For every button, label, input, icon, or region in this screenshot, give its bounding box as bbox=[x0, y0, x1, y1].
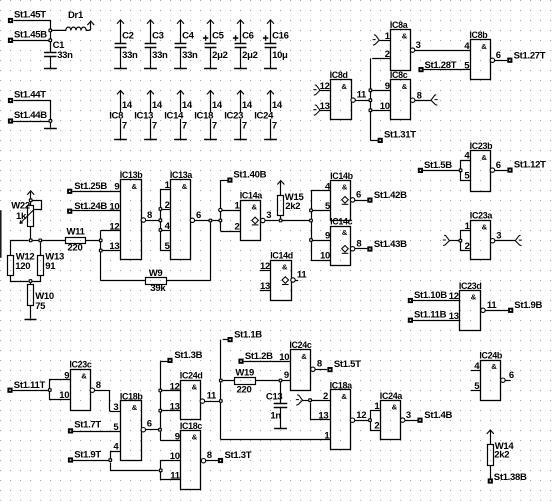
node St1.45B bbox=[8, 29, 47, 43]
svg-text:7: 7 bbox=[182, 120, 187, 131]
ground bbox=[114, 139, 127, 141]
svg-text:3: 3 bbox=[113, 402, 118, 413]
wire bbox=[405, 420, 418, 422]
wire bbox=[424, 69, 470, 71]
pin 6 IC8b bbox=[490, 50, 501, 63]
svg-text:13: 13 bbox=[109, 241, 119, 252]
wire bbox=[146, 220, 159, 222]
svg-text:&: & bbox=[301, 352, 307, 361]
svg-text:IC14b: IC14b bbox=[330, 171, 354, 181]
svg-text:11: 11 bbox=[297, 270, 307, 281]
svg-text:11: 11 bbox=[170, 471, 180, 482]
svg-text:IC23: IC23 bbox=[224, 111, 243, 122]
svg-text:12: 12 bbox=[356, 410, 366, 421]
wire bbox=[413, 300, 460, 302]
svg-text:8: 8 bbox=[356, 238, 361, 249]
junction bbox=[158, 409, 162, 413]
svg-text:IC18a: IC18a bbox=[330, 380, 353, 390]
gate IC23d bbox=[459, 281, 482, 331]
svg-text:IC14c: IC14c bbox=[330, 216, 353, 226]
svg-text:W11: W11 bbox=[67, 227, 86, 238]
node St1.5T bbox=[327, 359, 361, 372]
junction bbox=[99, 239, 103, 243]
svg-text:2: 2 bbox=[465, 241, 470, 252]
wire bbox=[355, 100, 368, 102]
svg-text:2μ2: 2μ2 bbox=[212, 50, 227, 61]
junction bbox=[48, 29, 52, 33]
junction bbox=[159, 207, 163, 211]
pin 2 IC13a bbox=[165, 200, 170, 211]
junction bbox=[159, 218, 163, 222]
svg-text:1k: 1k bbox=[16, 211, 27, 222]
svg-text:&: & bbox=[81, 371, 87, 380]
pin 3 IC14a bbox=[261, 210, 272, 223]
svg-text:2k2: 2k2 bbox=[494, 450, 509, 461]
svg-text:C5: C5 bbox=[212, 30, 225, 41]
svg-text:6: 6 bbox=[196, 210, 201, 221]
wire bbox=[283, 220, 312, 222]
junction bbox=[279, 379, 283, 383]
svg-text:St1.9T: St1.9T bbox=[74, 450, 101, 461]
pin 11 IC18c bbox=[170, 471, 180, 482]
junction bbox=[309, 238, 313, 242]
wire bbox=[485, 310, 508, 312]
node St1.10B bbox=[408, 290, 447, 303]
svg-text:IC24b: IC24b bbox=[479, 350, 503, 360]
pin 8 IC23c bbox=[90, 380, 101, 393]
svg-text:2μ2: 2μ2 bbox=[242, 50, 257, 61]
wire bbox=[73, 431, 120, 433]
svg-text:St1.27T: St1.27T bbox=[514, 50, 546, 61]
svg-text:120: 120 bbox=[15, 261, 30, 272]
resistor W11 bbox=[66, 227, 86, 254]
svg-text:9: 9 bbox=[114, 182, 119, 193]
wire bbox=[13, 40, 48, 42]
wire bbox=[295, 280, 298, 282]
gate IC13b bbox=[120, 170, 144, 260]
svg-text:2: 2 bbox=[385, 49, 390, 60]
svg-text:10μ: 10μ bbox=[272, 50, 288, 61]
svg-text:W22: W22 bbox=[11, 200, 30, 211]
svg-text:IC13b: IC13b bbox=[120, 170, 144, 180]
input bar IC23c bbox=[50, 380, 71, 400]
wire bbox=[42, 240, 65, 242]
wire bbox=[220, 180, 222, 231]
open collector symbol bbox=[252, 217, 259, 225]
svg-text:9: 9 bbox=[284, 370, 289, 381]
svg-text:12: 12 bbox=[170, 381, 180, 392]
svg-text:12: 12 bbox=[449, 291, 459, 302]
svg-text:&: & bbox=[132, 403, 138, 412]
pin 6 IC23b bbox=[490, 160, 501, 173]
input bar IC18c pins 10/11 bbox=[161, 461, 181, 480]
IC IC13 power pins 14/7 bbox=[134, 91, 163, 140]
node St1.11B bbox=[408, 310, 447, 323]
svg-text:Dr1: Dr1 bbox=[68, 10, 84, 21]
wire bbox=[14, 101, 51, 120]
wire bbox=[86, 240, 99, 242]
svg-text:C2: C2 bbox=[122, 30, 134, 41]
svg-text:9: 9 bbox=[64, 370, 69, 381]
pin 11 IC8d bbox=[351, 90, 367, 103]
svg-text:C16: C16 bbox=[272, 30, 289, 41]
node St1.2B bbox=[238, 351, 273, 364]
gate IC8d bbox=[330, 70, 352, 119]
wire bbox=[195, 220, 209, 222]
svg-text:St1.10B: St1.10B bbox=[414, 290, 447, 301]
capacitor C3 bbox=[145, 20, 168, 69]
junction bbox=[219, 219, 223, 223]
svg-text:&: & bbox=[402, 32, 408, 41]
svg-text:&: & bbox=[482, 223, 488, 232]
gate IC24d bbox=[180, 371, 203, 420]
IC IC23 power pins 14/7 bbox=[224, 91, 253, 140]
svg-text:&: & bbox=[132, 182, 138, 191]
junction bbox=[369, 98, 373, 102]
svg-text:St1.45B: St1.45B bbox=[14, 29, 47, 40]
pin 4 IC18b bbox=[111, 441, 121, 458]
svg-text:13: 13 bbox=[320, 101, 330, 112]
svg-text:10: 10 bbox=[380, 101, 390, 112]
pin 8 IC18c bbox=[201, 450, 211, 463]
pin 2 IC8a bbox=[372, 49, 390, 60]
svg-text:6: 6 bbox=[509, 370, 514, 381]
capacitor C5 bbox=[203, 20, 228, 69]
pin 3 IC8a bbox=[410, 40, 420, 53]
pin 4 IC14b bbox=[325, 181, 331, 192]
open output arrow bbox=[515, 235, 522, 245]
pin 4 IC24b bbox=[471, 361, 480, 372]
node St1.11T bbox=[7, 380, 45, 393]
pin 13 IC13b bbox=[109, 241, 119, 252]
svg-text:IC13a: IC13a bbox=[170, 170, 193, 180]
svg-text:St1.31T: St1.31T bbox=[384, 130, 416, 141]
wire bbox=[495, 170, 508, 172]
node St1.7T bbox=[68, 420, 102, 434]
svg-text:IC13: IC13 bbox=[134, 111, 153, 122]
pin 13 IC8d bbox=[313, 101, 330, 115]
svg-text:&: & bbox=[192, 382, 198, 391]
ground bbox=[144, 139, 157, 141]
wire bbox=[220, 340, 222, 440]
pin 6 IC24b bbox=[501, 370, 514, 382]
wire bbox=[13, 121, 49, 123]
gate IC14b bbox=[330, 171, 354, 221]
wire bbox=[33, 240, 39, 242]
resistor W9 bbox=[101, 268, 167, 294]
pin 5 IC23b bbox=[464, 171, 470, 182]
pin 10 IC18c bbox=[170, 451, 180, 462]
pin 3 IC24a bbox=[401, 410, 411, 422]
svg-text:St1.25B: St1.25B bbox=[74, 181, 107, 192]
pin 11 IC23d bbox=[481, 300, 498, 313]
pin 10 IC8c bbox=[372, 101, 390, 112]
junction bbox=[279, 219, 283, 223]
resistor W14 bbox=[487, 430, 515, 478]
svg-text:St1.3T: St1.3T bbox=[225, 450, 252, 461]
svg-text:St1.11B: St1.11B bbox=[414, 310, 447, 321]
svg-text:6: 6 bbox=[496, 160, 501, 171]
svg-text:W19: W19 bbox=[235, 368, 254, 379]
svg-text:39k: 39k bbox=[150, 283, 166, 294]
junction bbox=[108, 458, 112, 462]
open input arrow bbox=[443, 235, 459, 245]
svg-text:St1.9B: St1.9B bbox=[514, 300, 542, 311]
svg-text:St1.45T: St1.45T bbox=[14, 10, 46, 21]
svg-text:3: 3 bbox=[406, 410, 411, 421]
junction bbox=[309, 219, 313, 223]
svg-text:3: 3 bbox=[416, 40, 421, 51]
pin 6 IC18b bbox=[141, 419, 152, 432]
input bar IC23b bbox=[461, 161, 471, 181]
svg-text:IC8c: IC8c bbox=[390, 70, 408, 80]
svg-text:220: 220 bbox=[237, 384, 252, 395]
ground bbox=[114, 68, 127, 70]
junction bbox=[459, 168, 463, 172]
svg-text:1n: 1n bbox=[270, 410, 281, 421]
svg-text:13: 13 bbox=[170, 401, 180, 412]
pin 8 IC13b bbox=[141, 210, 152, 222]
svg-text:IC18b: IC18b bbox=[120, 391, 144, 401]
svg-text:&: & bbox=[471, 293, 477, 302]
svg-text:8: 8 bbox=[317, 359, 322, 370]
pin 9 IC8c bbox=[372, 81, 390, 92]
wire bbox=[100, 231, 102, 281]
wire bbox=[244, 361, 290, 363]
wire bbox=[495, 60, 508, 62]
pin 12 IC18a bbox=[350, 410, 366, 423]
svg-text:IC18c: IC18c bbox=[180, 421, 203, 431]
capacitor C6 bbox=[233, 20, 258, 69]
capacitor C13 bbox=[266, 382, 287, 428]
gate IC23a bbox=[470, 211, 493, 260]
ground bbox=[204, 68, 217, 70]
IC IC24 power pins 14/7 bbox=[254, 91, 283, 140]
pin 4 IC13a bbox=[165, 221, 171, 232]
wire bbox=[206, 460, 218, 462]
svg-text:IC24c: IC24c bbox=[289, 340, 312, 350]
pin 1 IC18a bbox=[221, 431, 331, 442]
ground bbox=[44, 128, 57, 130]
svg-text:14: 14 bbox=[122, 100, 133, 111]
svg-text:75: 75 bbox=[35, 301, 46, 312]
svg-text:&: & bbox=[392, 403, 398, 412]
resistor W10 bbox=[28, 283, 54, 319]
gate IC24a bbox=[380, 391, 403, 440]
resistor W19 bbox=[223, 368, 279, 396]
svg-text:14: 14 bbox=[242, 100, 253, 111]
junction bbox=[38, 239, 42, 243]
pin 2 IC24a bbox=[374, 421, 379, 432]
input bar IC18a pin 13 bbox=[311, 403, 331, 422]
svg-text:St1.5T: St1.5T bbox=[334, 359, 361, 370]
wire bbox=[50, 123, 52, 128]
pin 11 IC14d bbox=[291, 270, 308, 283]
svg-text:IC24a: IC24a bbox=[380, 391, 403, 401]
pin 2 IC18a bbox=[312, 391, 330, 402]
pin 8 IC14c bbox=[350, 238, 361, 251]
node St1.44T bbox=[8, 90, 46, 104]
ground bbox=[25, 319, 37, 321]
gate IC14d bbox=[270, 251, 293, 301]
svg-text:33n: 33n bbox=[182, 50, 198, 61]
pin 12 IC13b bbox=[109, 221, 119, 232]
pin 5 IC13a bbox=[165, 241, 171, 252]
wire bbox=[72, 210, 120, 212]
svg-text:6: 6 bbox=[496, 50, 501, 61]
svg-text:14: 14 bbox=[152, 100, 163, 111]
open input arrow bbox=[296, 395, 308, 405]
node St1.38B bbox=[488, 472, 527, 483]
pin 9 IC13b bbox=[114, 182, 119, 193]
wire bbox=[146, 429, 159, 431]
pin 5 IC18b bbox=[113, 422, 119, 433]
gate IC18a bbox=[330, 380, 353, 449]
pin 10 IC13b bbox=[109, 202, 119, 213]
svg-text:IC14a: IC14a bbox=[240, 191, 263, 201]
svg-text:2: 2 bbox=[165, 200, 170, 211]
node St1.1B bbox=[223, 329, 263, 342]
svg-text:&: & bbox=[282, 262, 288, 271]
ground bbox=[44, 68, 57, 70]
node St1.28T bbox=[418, 60, 456, 72]
pin 12 IC24d bbox=[162, 381, 180, 392]
svg-text:&: & bbox=[342, 183, 348, 192]
pin 10 IC23c bbox=[59, 390, 69, 401]
pin 12 IC14d bbox=[260, 261, 271, 272]
wire bbox=[205, 401, 219, 403]
pin 1 IC14a bbox=[222, 201, 240, 212]
pin 13 IC14d bbox=[260, 281, 271, 292]
svg-text:11: 11 bbox=[487, 300, 497, 311]
svg-text:W9: W9 bbox=[149, 268, 163, 279]
pin 2 IC23a bbox=[465, 241, 470, 252]
capacitor C4 bbox=[175, 20, 198, 69]
junction bbox=[308, 398, 312, 402]
junction bbox=[29, 239, 33, 243]
pin 5 IC8b bbox=[464, 60, 470, 71]
ground bbox=[234, 139, 247, 141]
svg-text:St1.7T: St1.7T bbox=[74, 420, 101, 431]
wire bbox=[13, 390, 48, 392]
junction bbox=[29, 198, 33, 202]
svg-text:13: 13 bbox=[449, 311, 459, 322]
junction bbox=[159, 228, 163, 232]
pin 9 IC23c bbox=[64, 370, 69, 381]
svg-text:St1.42B: St1.42B bbox=[374, 190, 407, 201]
junction bbox=[219, 399, 223, 403]
svg-text:St1.4B: St1.4B bbox=[424, 410, 452, 421]
svg-text:St1.43B: St1.43B bbox=[374, 239, 407, 250]
svg-text:IC8d: IC8d bbox=[330, 70, 348, 80]
svg-text:220: 220 bbox=[68, 243, 83, 254]
pin 12 IC8d bbox=[313, 81, 330, 95]
gate IC14a bbox=[240, 191, 263, 241]
wire bbox=[415, 50, 470, 52]
svg-text:IC24: IC24 bbox=[254, 111, 274, 122]
resistor W15 bbox=[277, 181, 304, 219]
gate IC18b bbox=[120, 391, 144, 460]
svg-text:10: 10 bbox=[320, 251, 330, 262]
ground bbox=[144, 68, 157, 70]
node St1.5B bbox=[418, 160, 452, 173]
resistor W13 bbox=[38, 242, 64, 275]
wire bbox=[423, 170, 459, 172]
wire bbox=[11, 241, 29, 256]
svg-text:&: & bbox=[182, 182, 188, 191]
node St1.12T bbox=[507, 160, 546, 173]
svg-text:&: & bbox=[341, 392, 347, 401]
pin 9 IC18c bbox=[160, 431, 180, 442]
svg-text:IC14: IC14 bbox=[164, 111, 184, 122]
svg-text:2k2: 2k2 bbox=[285, 201, 300, 212]
input bar IC23a bbox=[461, 231, 471, 251]
junction bbox=[219, 379, 223, 383]
svg-text:12: 12 bbox=[260, 261, 270, 272]
junction bbox=[459, 239, 463, 243]
svg-text:9: 9 bbox=[175, 431, 180, 442]
svg-text:10: 10 bbox=[170, 451, 180, 462]
svg-text:10: 10 bbox=[279, 352, 289, 363]
wire bbox=[30, 226, 32, 239]
svg-text:St1.2B: St1.2B bbox=[245, 351, 273, 362]
junction bbox=[49, 119, 53, 123]
svg-text:11: 11 bbox=[357, 90, 367, 101]
IC IC8 power pins 14/7 bbox=[109, 91, 133, 140]
pin 11 IC24d bbox=[200, 391, 217, 404]
capacitor C16 bbox=[263, 20, 289, 69]
input bar IC24a bbox=[371, 411, 381, 431]
pin 5 IC14b bbox=[325, 201, 331, 212]
svg-text:33n: 33n bbox=[152, 50, 168, 61]
pin 5 IC24b bbox=[471, 381, 480, 392]
ground bbox=[174, 139, 187, 141]
wire bbox=[370, 58, 377, 140]
svg-text:14: 14 bbox=[272, 100, 283, 111]
svg-text:8: 8 bbox=[147, 210, 152, 221]
svg-text:33n: 33n bbox=[122, 50, 138, 61]
svg-text:14: 14 bbox=[212, 100, 223, 111]
pin 3 IC18b bbox=[113, 402, 118, 413]
gate IC8a bbox=[390, 20, 411, 71]
junction bbox=[48, 38, 52, 42]
wire bbox=[495, 240, 516, 242]
wire bbox=[11, 276, 29, 282]
pin 1 IC8a bbox=[373, 31, 391, 45]
svg-text:&: & bbox=[491, 362, 497, 371]
capacitor C2 bbox=[115, 20, 138, 69]
gate IC18c bbox=[180, 421, 203, 490]
capacitor C1 bbox=[44, 40, 73, 68]
ground bbox=[274, 428, 287, 430]
pin 10 IC24c bbox=[279, 352, 289, 363]
pin 10 IC14c bbox=[320, 251, 330, 262]
node St1.42B bbox=[367, 190, 407, 203]
svg-text:33n: 33n bbox=[57, 50, 73, 61]
node St1.45T bbox=[8, 10, 46, 23]
wire bbox=[73, 460, 108, 462]
pin 6 IC13a bbox=[190, 210, 201, 222]
svg-text:St1.5B: St1.5B bbox=[424, 160, 452, 171]
svg-text:St1.40B: St1.40B bbox=[233, 169, 266, 180]
node St1.25B bbox=[67, 181, 107, 194]
gate IC8c bbox=[390, 70, 411, 119]
svg-text:IC23d: IC23d bbox=[459, 281, 482, 291]
resistor W12 bbox=[8, 252, 35, 276]
svg-text:IC8: IC8 bbox=[109, 111, 123, 122]
pin 8 IC8c bbox=[411, 90, 422, 102]
wire bbox=[160, 361, 167, 440]
